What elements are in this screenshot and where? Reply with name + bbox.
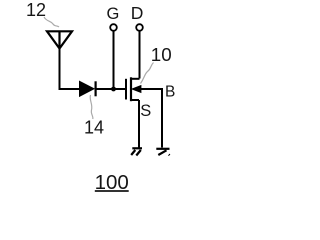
svg-text:G: G — [107, 5, 120, 23]
svg-text:10: 10 — [151, 44, 172, 65]
junction dot node G — [111, 87, 116, 92]
MOSFET 10 body arrow — [132, 85, 141, 92]
wire D terminal to drain — [139, 31, 141, 79]
svg-text:12: 12 — [26, 0, 46, 20]
diode 14 — [80, 81, 96, 96]
MOSFET 10 channel bar — [130, 77, 132, 101]
leader line to antenna 12 — [44, 17, 59, 27]
svg-text:14: 14 — [84, 118, 104, 138]
wire G terminal to junction — [113, 31, 115, 89]
svg-text:B: B — [165, 83, 175, 100]
wire antenna feed to diode anode — [60, 49, 81, 90]
MOSFET 10 source connection — [131, 99, 139, 101]
wire source down — [138, 100, 140, 148]
wire diode cathode to gate — [96, 88, 126, 90]
underline of 100 — [95, 190, 129, 192]
wire body to B corner — [140, 88, 163, 90]
ground body — [156, 149, 169, 155]
svg-text:D: D — [131, 3, 144, 23]
antenna 12 — [47, 31, 72, 48]
ground source — [131, 148, 142, 155]
svg-text:S: S — [140, 102, 151, 120]
leader line to diode 14 — [90, 95, 93, 119]
terminal G — [110, 24, 117, 31]
leader line to MOSFET 10 — [141, 63, 154, 84]
terminal D — [136, 24, 143, 31]
wire body down — [161, 89, 163, 148]
MOSFET 10 drain connection — [131, 78, 140, 80]
MOSFET 10 gate bar — [125, 79, 127, 100]
